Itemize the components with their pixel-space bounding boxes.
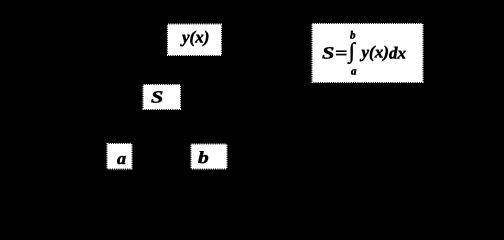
label box a xyxy=(108,144,132,169)
svg-text:y(x): y(x) xyxy=(180,28,209,47)
svg-text:a: a xyxy=(117,149,127,168)
svg-text:a: a xyxy=(351,66,357,78)
svg-text:y(x): y(x) xyxy=(360,43,389,62)
svg-text:S: S xyxy=(322,44,334,63)
label box y(x) xyxy=(168,25,221,56)
label box S xyxy=(144,85,181,109)
svg-text:b: b xyxy=(198,148,209,167)
label box b xyxy=(192,145,227,169)
formula box S = integral a to b of y(x) dx xyxy=(313,24,423,82)
svg-text:b: b xyxy=(350,30,356,42)
svg-text:S: S xyxy=(151,88,163,107)
svg-text:=: = xyxy=(335,44,347,63)
svg-text:dx: dx xyxy=(389,44,407,63)
